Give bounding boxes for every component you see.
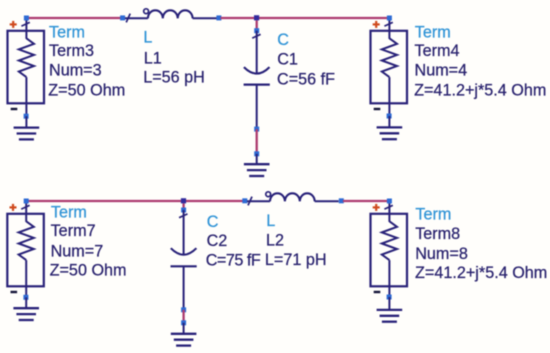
wire to ground symbol: [183, 323, 185, 334]
wire junction to C1: [256, 21, 258, 31]
inductor L2: [247, 192, 339, 202]
wire Term3 to L1: [26, 17, 121, 19]
pin mark Term4 pin 1: [384, 22, 392, 26]
junction node B (bottom wire / C2): [181, 198, 186, 203]
svg-text:Z=50 Ohm: Z=50 Ohm: [48, 81, 125, 99]
ground (Term4 ground): [377, 127, 403, 139]
ground (C2 ground): [171, 334, 197, 346]
node at L1 pin 1: [120, 15, 125, 20]
wire C1 to ground node: [256, 129, 258, 154]
node at L2 pin 2: [339, 198, 344, 203]
wire Term7 node to ground: [25, 297, 27, 308]
ground (Term7 ground): [13, 308, 39, 320]
svg-text:Z=41.2+j*5.4 Ohm: Z=41.2+j*5.4 Ohm: [414, 81, 546, 99]
wire node B to L2: [184, 200, 243, 202]
svg-text:Term8: Term8: [415, 225, 460, 243]
pin mark Term8 pin 1: [384, 205, 392, 209]
svg-text:C: C: [207, 213, 219, 231]
term Term8 symbol: [371, 201, 408, 297]
svg-text:Term: Term: [49, 24, 85, 42]
term Term4 symbol: [371, 18, 408, 116]
wire junction to C2: [182, 204, 184, 211]
svg-text:L=56 pH: L=56 pH: [143, 69, 205, 87]
svg-text:Term: Term: [415, 206, 451, 224]
minus terminal Term3: [11, 108, 18, 110]
node at Term4 pin 1: [387, 16, 392, 21]
wire Term8 node to ground: [388, 297, 390, 310]
svg-text:Term: Term: [51, 204, 87, 222]
wire Term4 node to ground: [388, 116, 390, 127]
inductor L1: [125, 9, 217, 19]
node at Term8 ground pin: [387, 295, 392, 300]
wire node A to Term4: [257, 17, 390, 19]
svg-text:Term: Term: [415, 24, 451, 42]
wire Term7 to node B: [26, 200, 183, 202]
svg-text:Term3: Term3: [49, 42, 94, 60]
svg-text:Num=3: Num=3: [49, 62, 102, 80]
node at Term7 pin 1: [24, 199, 29, 204]
svg-text:C=75 fF: C=75 fF: [206, 251, 261, 269]
pin mark C2 pin 1: [179, 214, 187, 218]
pin mark L1 pin 1: [126, 14, 130, 23]
pin mark Term3 pin 1: [21, 22, 29, 26]
wire to ground symbol: [256, 154, 258, 164]
plus terminal Term8: [373, 204, 380, 211]
plus terminal Term3: [10, 21, 17, 28]
minus terminal Term8: [374, 291, 381, 293]
svg-text:C: C: [277, 31, 289, 49]
junction node A (top wire / C1): [254, 15, 259, 20]
wire L2 to Term8: [343, 200, 389, 202]
plus terminal Term7: [10, 204, 17, 211]
node at C1 ground: [254, 151, 259, 156]
node at C2 ground: [181, 320, 186, 325]
capacitor C2: [171, 210, 197, 310]
node at Term4 ground pin: [387, 114, 392, 119]
svg-text:Term7: Term7: [51, 222, 96, 240]
term Term3 symbol: [8, 18, 45, 116]
svg-text:Z=50 Ohm: Z=50 Ohm: [50, 262, 127, 280]
svg-text:Num=8: Num=8: [415, 245, 468, 263]
pin mark Term7 pin 1: [21, 205, 29, 209]
svg-text:C=56 fF: C=56 fF: [277, 71, 335, 89]
svg-text:C2: C2: [207, 232, 228, 250]
node at C2 pin 2: [181, 307, 186, 312]
plus terminal Term4: [373, 21, 380, 28]
svg-text:Term4: Term4: [415, 42, 460, 60]
svg-text:L: L: [143, 29, 152, 47]
ground (Term3 ground): [14, 128, 40, 140]
svg-text:Z=41.2+j*5.4 Ohm: Z=41.2+j*5.4 Ohm: [415, 264, 547, 282]
node at C2 pin 1: [181, 208, 186, 213]
svg-text:L1: L1: [144, 49, 162, 67]
node at Term3 ground pin: [24, 114, 29, 119]
node at C1 pin 1: [254, 28, 259, 33]
pin mark L2 pin 1: [248, 197, 252, 206]
minus terminal Term4: [374, 108, 381, 110]
node at Term8 pin 1: [387, 199, 392, 204]
capacitor C1: [244, 31, 270, 129]
svg-text:L2: L2: [266, 232, 284, 250]
term Term7 symbol: [7, 201, 44, 297]
wire L1 to node A: [221, 17, 257, 19]
ground (Term8 ground): [377, 310, 403, 322]
svg-text:C1: C1: [277, 51, 298, 69]
ground (C1 ground): [244, 164, 270, 176]
node at C1 pin 2: [254, 127, 259, 132]
minus terminal Term7: [11, 291, 18, 293]
svg-text:Num=4: Num=4: [415, 62, 468, 80]
node at Term7 ground pin: [23, 295, 28, 300]
svg-text:L: L: [266, 212, 275, 230]
svg-text:Num=7: Num=7: [51, 242, 104, 260]
node at L2 pin 1: [242, 198, 247, 203]
node at L1 pin 2: [216, 15, 221, 20]
pin mark C1 pin 1: [252, 34, 260, 38]
wire C2 to ground node: [182, 310, 184, 323]
svg-text:L=71 pH: L=71 pH: [265, 251, 327, 269]
wire Term3 node to ground: [25, 116, 27, 127]
node at Term3 pin 1: [24, 16, 29, 21]
